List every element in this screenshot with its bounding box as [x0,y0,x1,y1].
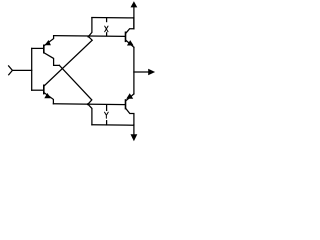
V- supply arrow [131,134,138,141]
wire crossover descending [59,65,91,104]
transistor Q2 base bar [43,85,45,93]
wire junction-y to bottom rail [88,104,92,125]
wire V+ shaft [133,7,135,29]
wire Q1 base [32,47,44,49]
V+ supply arrow [131,1,138,7]
wire right vertical [133,47,135,94]
transistor Q3 emitter lead [126,40,134,47]
wire top rail [92,17,134,19]
wire input horizontal [12,69,31,71]
input port X chevron [9,66,13,75]
wire junction-x to top rail [88,18,92,37]
transistor Q2 emitter lead [44,93,53,104]
wire crossover ascending [44,37,92,86]
net label x [105,26,108,32]
transistor Q1 emitter arrow [45,40,51,45]
wire stub x bottom [106,33,108,36]
wire Q2 base [32,89,44,91]
transistor Q4 base bar [125,100,127,109]
wire bottom rail [92,124,134,126]
transistor Q3 base bar [125,32,127,41]
transistor Q3 emitter arrow [127,40,134,45]
transistor Q2 emitter arrow [44,93,51,98]
wire output Z [134,71,148,73]
transistor Q4 emitter arrow [126,93,133,99]
output arrowhead [148,69,155,76]
junction dot node x [87,35,89,37]
wire input vertical [31,48,33,90]
wire Q1 collector lead [44,53,59,66]
transistor Q1 base bar [43,45,45,52]
transistor Q1 emitter lead [44,36,54,46]
transistor Q4 collector lead [126,109,134,125]
wire stub y bottom [106,121,108,125]
net label Y [105,112,109,118]
wire node x horizontal [54,35,125,38]
wire stub x top [106,18,108,22]
transistor Q3 collector lead [126,18,134,34]
wire V- shaft [133,125,135,135]
junction dot node y [87,103,89,105]
transistor Q4 emitter lead [126,94,134,101]
wire node y horizontal [53,103,125,106]
wire stub y top [106,105,108,111]
